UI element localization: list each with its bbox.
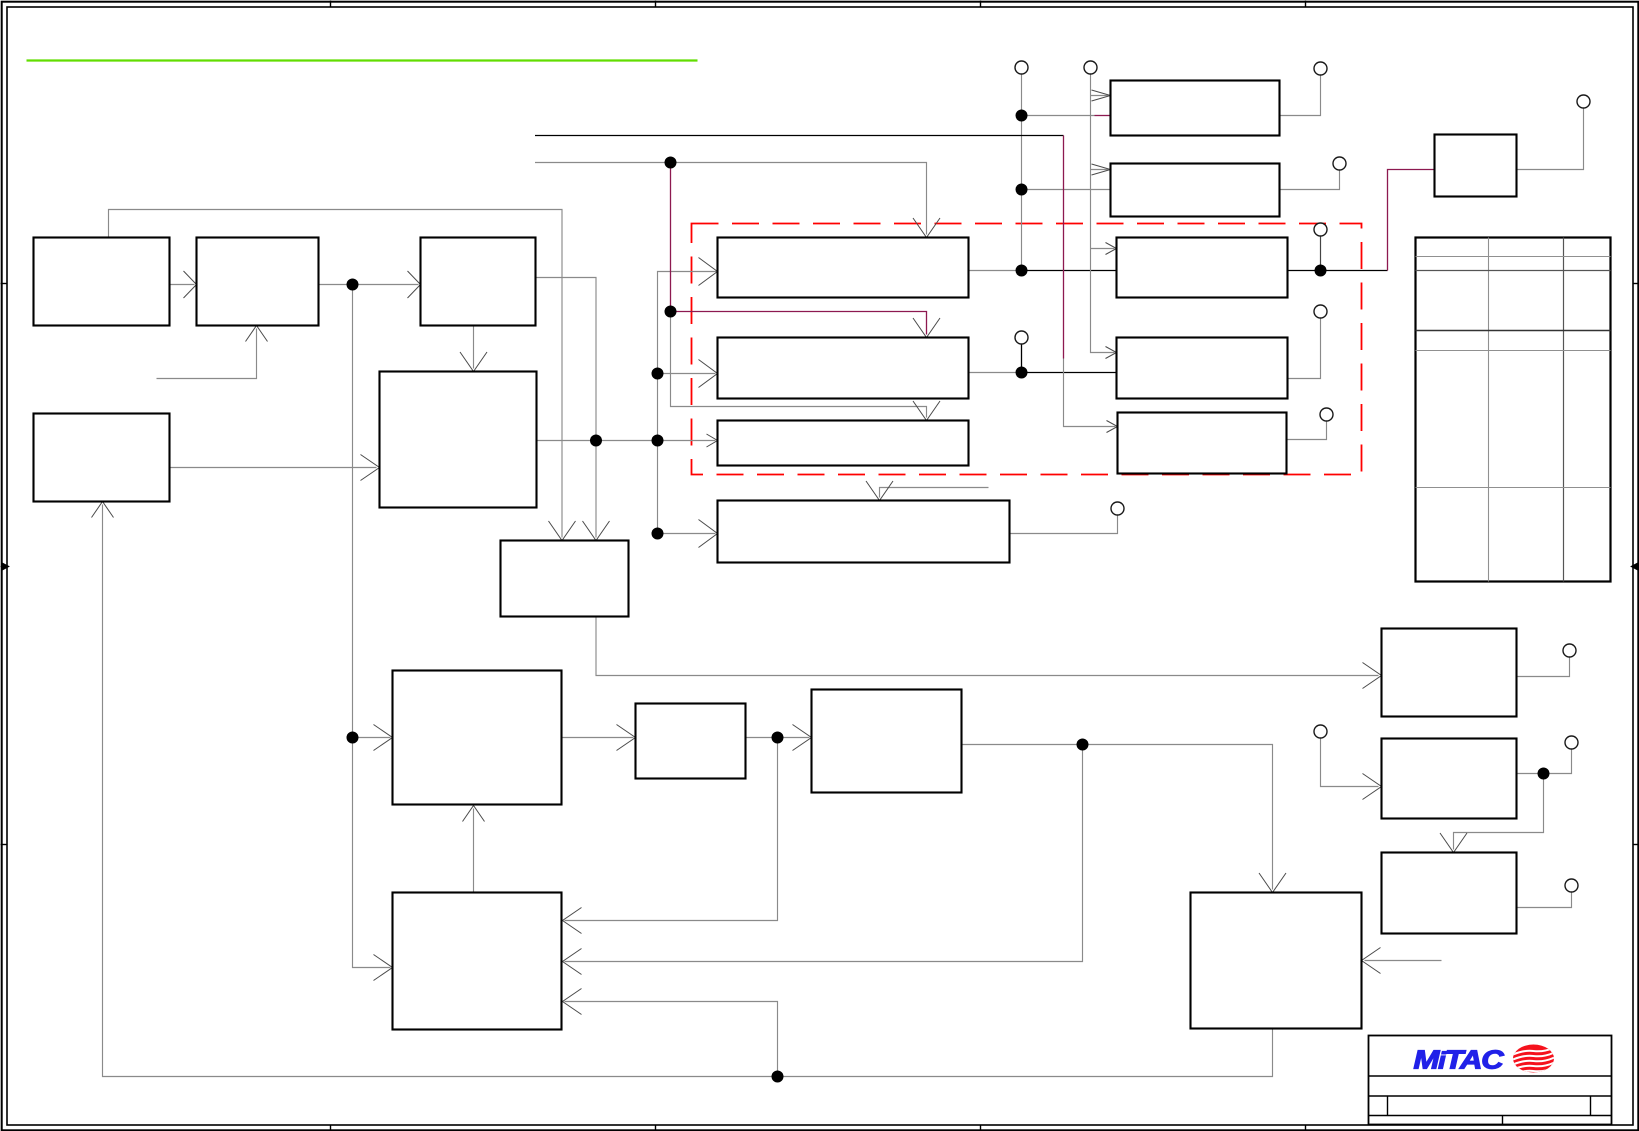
block J bbox=[1382, 629, 1517, 717]
arrowhead into T5 bbox=[1107, 421, 1118, 433]
block T5 bbox=[1118, 413, 1287, 474]
arrowhead into G2 right middle bbox=[563, 949, 582, 975]
junction bbox=[652, 528, 664, 540]
wire L right to terminal bbox=[1517, 749, 1572, 774]
wire J right to terminal bbox=[1517, 657, 1570, 677]
arrowhead into R1 bbox=[699, 258, 718, 286]
border tick bottom bbox=[330, 1125, 332, 1131]
block R2 bbox=[718, 338, 969, 399]
arrowhead into F top right bbox=[583, 521, 610, 541]
junction bbox=[665, 157, 677, 169]
block R3 bbox=[718, 421, 969, 466]
title block bbox=[1369, 1036, 1612, 1125]
wire C right to F top bbox=[536, 278, 597, 538]
arrowhead into M top bbox=[1440, 833, 1467, 853]
wire H to I bbox=[746, 737, 810, 739]
wire T2 right to terminal bbox=[1280, 170, 1340, 190]
wire C to D bbox=[473, 326, 475, 369]
wire junction down into G2 upper bbox=[565, 738, 778, 921]
red dashed bus region bbox=[692, 224, 1362, 475]
wire D right to R3 bbox=[537, 440, 716, 442]
wire junction to T4 left bbox=[1022, 372, 1117, 374]
wire branch to T2 arrow bbox=[1091, 169, 1109, 171]
junction bbox=[347, 732, 359, 744]
wire I right to junction bbox=[962, 744, 1083, 746]
border tick right bbox=[1633, 283, 1639, 285]
wire branch to T3 arrow bbox=[1091, 248, 1115, 250]
junction bbox=[347, 279, 359, 291]
arrowhead into T1 bbox=[1092, 90, 1111, 101]
arrowhead into K top bbox=[1259, 873, 1286, 893]
arrowhead into T2 bbox=[1092, 164, 1111, 175]
terminal circle bbox=[1015, 331, 1028, 344]
arrowhead into G bbox=[374, 725, 393, 751]
block L bbox=[1382, 739, 1517, 819]
wire A-top feedback loop bbox=[109, 210, 563, 538]
block T3 bbox=[1117, 238, 1288, 298]
arrowhead into R1 top bbox=[913, 218, 940, 238]
block T4 bbox=[1117, 338, 1288, 399]
arrowhead into R3 top bbox=[913, 401, 940, 421]
arrowhead into T3 bbox=[1106, 243, 1117, 255]
wire F bottom to J bbox=[596, 617, 1379, 676]
arrowhead into R4 bbox=[699, 520, 718, 548]
arrowhead into G2 bbox=[374, 955, 393, 981]
block D bbox=[380, 372, 537, 508]
wire feedback tap into G2 lower bbox=[565, 1002, 778, 1077]
arrowhead into E bottom bbox=[92, 502, 114, 518]
wire R1 right to junction bbox=[969, 270, 1022, 272]
wire T4 right to terminal bbox=[1288, 318, 1321, 379]
wire terminal bus x1090 bbox=[1091, 74, 1115, 353]
wire black hline y135 bbox=[535, 135, 1064, 137]
border tick top bbox=[980, 1, 982, 8]
wire A to B bbox=[170, 284, 195, 286]
terminal circle bbox=[1084, 61, 1097, 74]
wire U1 right to terminal bbox=[1517, 108, 1584, 170]
wire R4 right to terminal bbox=[1010, 515, 1118, 534]
wire M right to terminal bbox=[1517, 892, 1572, 908]
block K bbox=[1191, 893, 1362, 1029]
terminal circle bbox=[1111, 502, 1124, 515]
wire junction to G bbox=[353, 737, 391, 739]
arrowhead into C bbox=[408, 271, 421, 298]
arrowhead into B bottom bbox=[246, 326, 268, 342]
block A bbox=[34, 238, 170, 326]
wire B to C bbox=[319, 284, 419, 286]
junction bbox=[652, 368, 664, 380]
border centering arrow left bbox=[1, 563, 9, 569]
wire branch to T1 arrow bbox=[1091, 95, 1109, 97]
arrowhead into F top left bbox=[549, 521, 576, 541]
wire bus down to G2 bbox=[353, 738, 391, 968]
junction bbox=[1315, 265, 1327, 277]
border tick bottom bbox=[1305, 1125, 1307, 1131]
block I bbox=[812, 690, 962, 793]
wire bus tap to R4 left bbox=[658, 533, 716, 535]
junction bbox=[590, 435, 602, 447]
wire junction to T3 left bbox=[1022, 270, 1117, 272]
terminal circle bbox=[1015, 61, 1028, 74]
junction bbox=[772, 1071, 784, 1083]
wire bus tap to R2 left bbox=[658, 373, 716, 375]
block G2 bbox=[393, 893, 562, 1030]
arrowhead into R4 top bbox=[866, 481, 893, 501]
block U1 bbox=[1435, 135, 1517, 197]
arrowhead into D top bbox=[460, 352, 487, 372]
arrowhead into K right bbox=[1362, 948, 1381, 974]
wire maroon T3 net to U1 bbox=[1388, 170, 1435, 271]
revision table bbox=[1416, 238, 1611, 582]
wire L junction to M top bbox=[1454, 774, 1544, 850]
wire junction down into G2 middle bbox=[565, 745, 1083, 962]
terminal circle bbox=[1565, 736, 1578, 749]
wire gray hline y162 to R1 top bbox=[535, 163, 927, 235]
junction bbox=[665, 306, 677, 318]
junction bbox=[1016, 367, 1028, 379]
junction bbox=[1016, 110, 1028, 122]
border tick right bbox=[1633, 844, 1639, 846]
wire G to H bbox=[562, 737, 634, 739]
arrowhead into L bbox=[1363, 774, 1382, 800]
terminal circle bbox=[1563, 644, 1576, 657]
terminal circle bbox=[1314, 62, 1327, 75]
wire bus to R1 left bbox=[658, 272, 718, 534]
wire stub into K right bbox=[1365, 960, 1442, 962]
wire E to D bbox=[170, 467, 377, 469]
arrowhead into B bbox=[184, 271, 197, 298]
wire gray branch to R3 top bbox=[671, 312, 927, 418]
terminal circle bbox=[1314, 305, 1327, 318]
arrowhead into R2 bbox=[699, 360, 718, 388]
green separator line bbox=[27, 59, 698, 61]
junction bbox=[1538, 768, 1550, 780]
junction bbox=[772, 732, 784, 744]
border tick left bbox=[1, 283, 8, 285]
wire R2 right to junction bbox=[969, 372, 1022, 374]
terminal circle bbox=[1565, 879, 1578, 892]
wire terminal above T3 net bbox=[1320, 236, 1322, 271]
wire maroon drop x1063 bbox=[1063, 136, 1065, 359]
junction bbox=[1077, 739, 1089, 751]
block F bbox=[501, 541, 629, 617]
block B bbox=[197, 238, 319, 326]
wire stub to R4 top bbox=[880, 488, 989, 498]
block R4 bbox=[718, 501, 1010, 563]
arrowhead into G bottom bbox=[463, 806, 485, 822]
wire terminal above R2-T4 junction bbox=[1021, 344, 1023, 373]
arrowhead into I bbox=[793, 725, 812, 751]
wire stub into B bottom bbox=[157, 329, 257, 379]
arrowhead into R3 bbox=[707, 434, 718, 447]
wire junction to K top bbox=[1083, 745, 1273, 890]
junction bbox=[1016, 184, 1028, 196]
arrowhead into G2 right upper bbox=[563, 908, 582, 934]
terminal circle bbox=[1314, 223, 1327, 236]
block E bbox=[34, 414, 170, 502]
wire tap to T1 left bbox=[1022, 115, 1095, 117]
arrowhead into J bbox=[1363, 663, 1382, 689]
border tick top bbox=[1305, 1, 1307, 8]
border centering arrow right bbox=[1632, 563, 1639, 569]
border tick bottom bbox=[980, 1125, 982, 1131]
terminal circle bbox=[1314, 725, 1327, 738]
terminal circle bbox=[1577, 95, 1590, 108]
block T1 bbox=[1111, 81, 1280, 136]
junction bbox=[652, 435, 664, 447]
wire G2 to G bbox=[473, 809, 475, 893]
block G bbox=[393, 671, 562, 805]
arrowhead into H bbox=[617, 725, 636, 751]
block T2 bbox=[1111, 164, 1280, 217]
block M bbox=[1382, 853, 1517, 934]
arrowhead into G2 right lower bbox=[563, 989, 582, 1015]
wire T5 right to terminal bbox=[1287, 421, 1327, 440]
wire bus from B-C junction down bbox=[352, 285, 354, 738]
wire tap to T2 left bbox=[1022, 189, 1111, 191]
arrowhead into T4 bbox=[1106, 347, 1117, 359]
svg-text:MiTAC: MiTAC bbox=[1414, 1045, 1506, 1075]
wire terminal bus x1021 bbox=[1021, 74, 1023, 271]
arrowhead into R2 top bbox=[913, 318, 940, 338]
border tick left bbox=[1, 844, 8, 846]
wire T1 right to terminal bbox=[1280, 75, 1321, 116]
wire terminal to L left bbox=[1321, 738, 1379, 787]
border tick bottom bbox=[655, 1125, 657, 1131]
border tick top bbox=[655, 1, 657, 8]
arrowhead into D bbox=[361, 455, 380, 481]
terminal circle bbox=[1333, 157, 1346, 170]
wire bottom feedback to E bbox=[103, 505, 1273, 1077]
block R1 bbox=[718, 238, 969, 298]
block C bbox=[421, 238, 536, 326]
wire maroon stub into T1 bbox=[1095, 115, 1111, 117]
block H bbox=[636, 704, 746, 779]
wire maroon net to R2 top bbox=[671, 163, 927, 335]
junction bbox=[1016, 265, 1028, 277]
wire gray continuation to T5 left bbox=[1064, 359, 1116, 427]
terminal circle bbox=[1320, 408, 1333, 421]
border tick top bbox=[330, 1, 332, 8]
wire T3 right to maroon corner bbox=[1288, 270, 1388, 272]
